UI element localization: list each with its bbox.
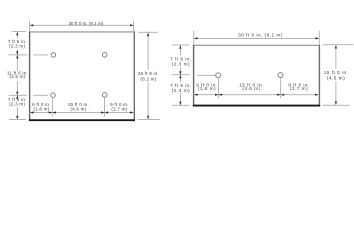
right dimension 26 ft 8 in.: dimension line [147,33,149,120]
right plan top dimension 30 ft: right extension line [318,31,320,45]
svg-text:(2.7 m): (2.7 m) [290,86,308,92]
top dimension 30 ft: left arrowhead [30,24,33,26]
left chain dimension line (7'6" / 11'6" / 7'6") [16,32,18,120]
right plan bottom chain arrowheads at 6 ft tick [215,94,218,96]
right plan top dimension 30 ft: dimension line [194,37,319,39]
room outline left plan: bottom wall [29,119,135,121]
svg-text:(4.6 m): (4.6 m) [70,106,86,111]
left chain: tick at second anchor row [9,94,27,96]
leader line to anchor B1 [197,74,215,76]
room outline left plan: right wall [133,31,135,120]
bottom chain arrowhead left at wall [30,111,33,113]
room outline left plan: left wall [29,31,31,120]
svg-text:(4.6 m): (4.6 m) [327,76,345,82]
room outline right plan: top wall [193,44,320,46]
right dimension 26 ft 8 in.: top extension tick [138,31,158,33]
room outline right plan: right wall [318,45,320,106]
bottom chain arrowhead right at wall [130,111,133,113]
svg-text:(3.5 m): (3.5 m) [9,74,25,79]
bottom chain arrowheads at 21 ft tick [101,111,104,113]
svg-text:30 ft 0 in. (9.1 m): 30 ft 0 in. (9.1 m) [238,32,283,38]
left chain arrowheads at second anchor row [16,92,18,95]
bottom chain: tick under anchor A3 [51,98,53,116]
anchor A4 (bottom-right column) [102,93,107,98]
svg-text:(1.8 m): (1.8 m) [33,106,49,111]
right plan right dimension 15 ft: bottom extension line [323,104,351,106]
right plan bottom chain arrowheads at 21 ft tick [277,94,280,96]
anchor A2 (top-right column) [102,53,107,58]
right plan right dimension 15 ft: dimension line [335,45,337,105]
left chain: tick at bottom wall [9,118,26,120]
svg-text:26 ft 8 in.: 26 ft 8 in. [138,71,159,76]
leader line to anchor A3 [33,94,48,96]
white mask behind 15 ft label [325,69,347,82]
svg-text:15 ft 0 in.: 15 ft 0 in. [324,70,349,76]
left chain arrowhead up at top wall [16,32,18,35]
right dimension 26 ft 8 in.: up arrowhead [147,33,149,36]
right plan right dimension 15 ft: up arrowhead [335,45,337,48]
white mask behind right plan left chain labels [172,55,191,67]
room outline right plan: bottom wall [193,105,320,107]
anchor A1 (top-left column) [51,53,56,58]
room outline right plan: left wall [193,45,195,106]
right plan left chain arrowhead up at top wall [179,45,181,48]
right plan right dimension 15 ft: top extension line [323,44,354,46]
right plan left chain arrowhead down at bottom wall [179,102,181,105]
anchor B2 (right column) [278,73,283,78]
leader line to anchor A1 [33,54,48,56]
right dimension 26 ft 8 in.: down arrowhead [147,116,149,119]
bottom chain: tick under anchor A4 [104,98,106,117]
svg-text:30 ft 0 in. (9.1 m): 30 ft 0 in. (9.1 m) [69,21,104,26]
room outline left plan: top wall [29,31,135,33]
right plan bottom chain arrowhead right at wall [315,94,318,96]
right plan right dimension 15 ft: down arrowhead [335,101,337,104]
right plan top dimension 30 ft: left extension line [193,31,195,45]
left chain: tick at first anchor row [9,54,28,56]
right plan bottom chain: tick under anchor B2 [280,78,282,98]
svg-text:(1.8 m): (1.8 m) [198,86,216,92]
top dimension 30 ft: right arrowhead [130,24,133,26]
svg-text:(2.3 m): (2.3 m) [9,43,25,48]
svg-text:(4.6 m): (4.6 m) [242,86,260,92]
white mask behind left chain labels [9,39,26,50]
svg-text:7 ft 6 in.: 7 ft 6 in. [170,83,192,89]
anchor B1 (left column) [216,73,221,78]
left chain: tick at top wall [12,31,27,33]
svg-text:(2.3 m): (2.3 m) [9,102,25,107]
svg-text:(2.3 m): (2.3 m) [172,88,190,94]
white mask behind 26 ft 8 in. label [138,70,159,83]
bottom chain dimension line (6' / 15' / 9') [29,112,134,114]
top dimension 30 ft: dimension line [30,24,133,26]
right plan left chain: tick at top wall [172,44,190,46]
right plan bottom chain arrowhead left at wall [194,94,197,96]
anchor A3 (bottom-left column) [51,93,56,98]
right plan left chain dimension line (7'6" / 7'6") [179,45,181,105]
right plan left chain: tick at anchor row [172,74,190,76]
left chain arrowhead down at bottom wall [16,116,18,119]
svg-text:(8.2 m): (8.2 m) [140,76,156,81]
right plan bottom chain: tick under anchor B1 [218,78,220,98]
right plan bottom chain dimension line (6' / 15' / 9') [193,94,319,96]
right plan top dimension 30 ft: right arrowhead [316,37,319,39]
right plan left chain arrowheads at anchor row [179,71,181,74]
right plan top dimension 30 ft: left arrowhead [194,37,197,39]
svg-text:(2.3 m): (2.3 m) [172,62,190,68]
left chain arrowheads at first anchor row [16,51,18,54]
svg-text:(2.7 m): (2.7 m) [111,106,127,111]
right plan left chain: tick at bottom wall [172,104,190,106]
bottom chain arrowheads at 6 ft tick [49,111,52,113]
right dimension 26 ft 8 in.: bottom extension tick [138,119,160,121]
top dimension 30 ft: right extension line [133,21,135,31]
top dimension 30 ft: left extension line [29,21,31,31]
